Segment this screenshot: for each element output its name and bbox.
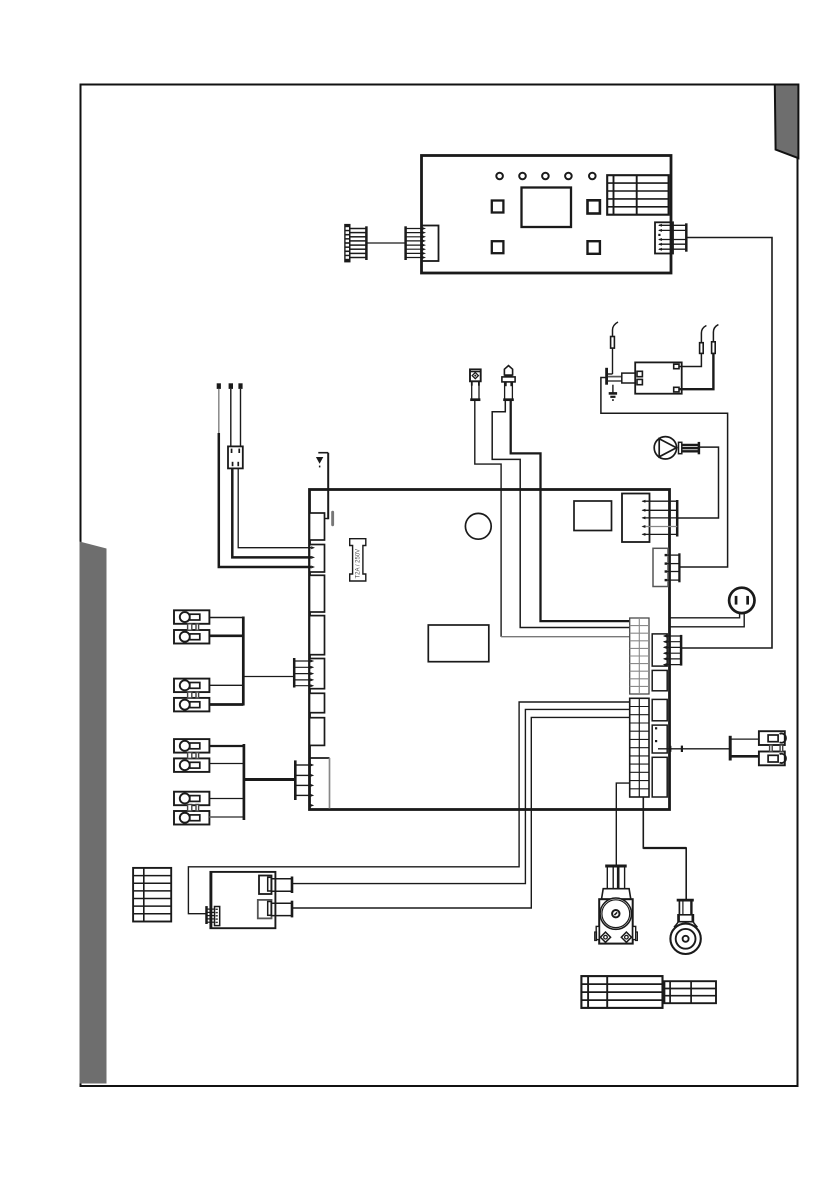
temperature sensor B2 (502, 366, 515, 400)
pin (311, 566, 315, 569)
wire (677, 447, 718, 518)
wire (240, 389, 242, 447)
wire (475, 401, 501, 637)
spark electrode E3 (679, 325, 718, 390)
wire (209, 763, 243, 765)
lug link (770, 745, 783, 752)
wire (366, 242, 405, 244)
connector X9 (207, 906, 220, 926)
wire (244, 778, 295, 781)
led L2 (519, 173, 526, 180)
wire (188, 702, 630, 914)
button S3 (492, 241, 504, 253)
wire (209, 745, 243, 747)
wire (511, 401, 631, 621)
pin (311, 556, 315, 559)
connector CN3 (310, 575, 325, 612)
ignition transformer T1 (635, 362, 682, 393)
terminal T6 (174, 758, 209, 772)
wire (219, 433, 311, 567)
connector CN7 (310, 718, 325, 746)
fan coil FN1 (670, 900, 700, 954)
lug link (188, 753, 199, 759)
connector X4 (228, 446, 243, 468)
jumper link (331, 511, 334, 526)
terminal T4 (174, 698, 209, 712)
wire (209, 703, 243, 706)
bus bar N1 (242, 617, 245, 706)
wire (209, 617, 243, 619)
connector J6 (652, 725, 683, 753)
pump P1 (654, 437, 699, 459)
main board A2 (310, 490, 670, 810)
led L5 (589, 173, 596, 180)
fuse F1 (350, 539, 366, 581)
connector J2 (653, 548, 679, 586)
buzzer BZ1 (465, 513, 491, 539)
connector CN6 (310, 693, 325, 712)
wire (292, 709, 631, 883)
wire (683, 748, 730, 750)
legend table TB4 (664, 981, 716, 1003)
wire (732, 738, 759, 740)
button S1 (492, 201, 504, 213)
wire (670, 613, 745, 627)
terminal T5 (174, 739, 209, 753)
wire (732, 755, 759, 758)
button S2 (588, 200, 600, 213)
terminal T7 (174, 792, 209, 806)
flow switch B1 (470, 369, 481, 399)
connector J1 (622, 494, 677, 543)
wire (292, 717, 631, 908)
valve coil Y1b (258, 900, 272, 919)
terminal strip TS1 (630, 618, 649, 694)
wire (232, 468, 311, 557)
terminal T2 (174, 630, 209, 644)
bus bar N2 (243, 744, 246, 820)
wire (681, 238, 772, 649)
connector X5 (294, 658, 314, 688)
wire (492, 401, 630, 628)
lug link (188, 805, 199, 812)
wire (616, 783, 630, 865)
terminal T9 (759, 731, 786, 745)
pump motor M1 (595, 866, 638, 944)
legend table TB3 (581, 976, 662, 1008)
connector CN8 (310, 758, 330, 809)
wire (209, 684, 243, 686)
terminal T3 (174, 679, 209, 693)
terminal table TB1 (607, 175, 668, 215)
connector J5 (652, 699, 667, 720)
terminal T1 (174, 610, 209, 624)
ribbon connector X1 (344, 224, 366, 263)
wire (243, 676, 294, 678)
wire (601, 378, 728, 568)
valve coil Y1a (259, 876, 272, 895)
control board A1 (422, 156, 672, 274)
spark electrode E2 (679, 326, 706, 367)
wire (209, 816, 243, 818)
relay K2 (574, 501, 612, 531)
connector X3 (655, 222, 686, 253)
wire (670, 613, 740, 618)
wire (230, 389, 232, 447)
terminal T8 (174, 811, 209, 825)
connector CN5 (310, 659, 325, 689)
connector CN1 (310, 513, 325, 540)
terminal strip TS2 (630, 698, 649, 797)
wire (209, 634, 243, 637)
plug X7 (271, 877, 292, 894)
led L3 (542, 173, 549, 180)
svg-text:T2A / 250V: T2A / 250V (356, 549, 362, 579)
gas valve Y1 (210, 872, 275, 928)
lug link (188, 692, 199, 698)
terminal T10 (759, 752, 786, 766)
relay K1 (428, 625, 489, 662)
wire (218, 389, 220, 434)
burner bracket (607, 368, 637, 393)
wire (316, 453, 328, 520)
connector CN4 (310, 616, 325, 655)
wire (643, 847, 686, 849)
connector J7 (652, 757, 667, 797)
connector CN2 (310, 545, 325, 573)
legend table TB2 (133, 868, 171, 922)
plug X8 (271, 901, 292, 918)
pin (311, 546, 315, 549)
wire (501, 636, 630, 638)
led L4 (565, 173, 572, 180)
led L1 (496, 173, 503, 180)
button S4 (588, 241, 600, 254)
connector X6 (295, 760, 314, 807)
display DS1 (522, 188, 572, 228)
terminal squares W1 (217, 383, 243, 389)
lug link (188, 624, 199, 630)
wire (209, 798, 243, 800)
connector J4 (652, 670, 667, 690)
wire (643, 797, 686, 899)
connector X2 (406, 226, 439, 262)
bus bar N3 (729, 736, 732, 761)
connector J3 (652, 634, 681, 666)
wire (238, 468, 311, 547)
ground (609, 393, 617, 401)
mains plug PL1 (729, 588, 754, 613)
flame electrode E1 (611, 322, 618, 374)
